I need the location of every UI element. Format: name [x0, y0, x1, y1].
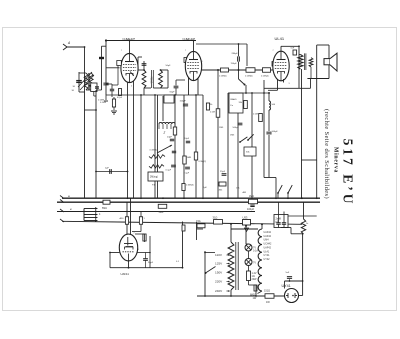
svg-text:UY41: UY41	[264, 254, 271, 257]
svg-text:0.1M5: 0.1M5	[98, 100, 105, 102]
svg-text:0.5M(3): 0.5M(3)	[186, 185, 194, 187]
svg-text:Minerva: Minerva	[333, 147, 339, 173]
svg-text:50µF: 50µF	[148, 262, 154, 264]
svg-text:5MΩ: 5MΩ	[102, 208, 107, 210]
svg-text:0.5M(2): 0.5M(2)	[199, 161, 207, 163]
svg-text:7060/1: 7060/1	[150, 76, 152, 84]
svg-text:(rechte Seite des Schaltbildes: (rechte Seite des Schaltbildes)	[323, 109, 330, 199]
svg-text:220V: 220V	[215, 280, 223, 284]
svg-text:0.1M(1): 0.1M(1)	[150, 150, 158, 152]
svg-text:7: 7	[185, 50, 186, 52]
svg-text:3: 3	[138, 249, 139, 251]
svg-text:240V: 240V	[215, 289, 223, 293]
svg-text:UL41: UL41	[264, 250, 270, 253]
svg-text:100pF: 100pF	[272, 131, 279, 133]
svg-text:50pF: 50pF	[170, 92, 176, 94]
svg-text:AM: AM	[243, 191, 246, 194]
svg-text:0.1M(5): 0.1M(5)	[219, 76, 227, 78]
svg-text:UCH42: UCH42	[264, 243, 273, 246]
svg-text:24pF: 24pF	[167, 137, 173, 139]
svg-text:5MΩ: 5MΩ	[159, 212, 164, 214]
svg-text:151Ω: 151Ω	[264, 290, 270, 293]
svg-text:125V: 125V	[215, 262, 223, 266]
svg-text:0.1M5: 0.1M5	[100, 102, 107, 104]
svg-text:700pF: 700pF	[231, 63, 238, 65]
svg-text:6: 6	[138, 62, 139, 64]
svg-text:A: A	[67, 41, 70, 45]
svg-text:3: 3	[289, 83, 290, 85]
svg-text:100pF: 100pF	[180, 101, 187, 103]
svg-text:0.1M(4): 0.1M(4)	[261, 76, 269, 78]
svg-text:31Ω: 31Ω	[213, 216, 218, 220]
svg-text:1W: 1W	[266, 301, 270, 304]
svg-text:1W: 1W	[253, 297, 257, 300]
svg-text:0µF: 0µF	[203, 187, 207, 189]
svg-text:20W: 20W	[252, 278, 258, 281]
svg-text:UL41: UL41	[275, 36, 285, 41]
svg-text:0.1µF: 0.1µF	[184, 173, 190, 175]
svg-text:25µF: 25µF	[220, 171, 226, 173]
svg-text:110V: 110V	[215, 253, 223, 257]
svg-text:500pF: 500pF	[233, 127, 240, 129]
svg-text:UAF42: UAF42	[264, 246, 272, 249]
svg-text:0.1µF: 0.1µF	[166, 170, 172, 172]
svg-text:UAF42: UAF42	[264, 235, 272, 238]
svg-text:7V: 7V	[253, 262, 256, 265]
svg-text:5nF: 5nF	[291, 48, 295, 50]
svg-text:Z: Z	[163, 131, 166, 135]
svg-text:7: 7	[121, 50, 122, 52]
svg-text:RAHD: RAHD	[231, 98, 238, 101]
svg-text:2M(ℓog): 2M(ℓog)	[150, 176, 158, 179]
svg-text:150V: 150V	[215, 271, 223, 275]
svg-text:5nF: 5nF	[286, 272, 290, 274]
svg-text:UAF42: UAF42	[264, 231, 272, 234]
svg-text:UM4: UM4	[264, 239, 270, 242]
svg-text:100µF: 100µF	[247, 208, 255, 211]
svg-text:Dr: Dr	[306, 222, 309, 225]
svg-text:24µF: 24µF	[184, 138, 190, 140]
svg-text:47µF: 47µF	[117, 97, 123, 99]
svg-text:0.1M: 0.1M	[210, 112, 215, 114]
svg-text:0.1M(6): 0.1M(6)	[245, 76, 253, 78]
svg-text:2: 2	[134, 233, 135, 235]
svg-text:2: 2	[131, 86, 132, 88]
svg-text:UAF41: UAF41	[121, 272, 130, 276]
svg-text:517 E’U: 517 E’U	[341, 139, 356, 207]
svg-text:U53: U53	[243, 216, 248, 220]
svg-text:7: 7	[273, 50, 274, 52]
svg-text:280pF: 280pF	[232, 53, 239, 55]
svg-text:1MΩ: 1MΩ	[187, 157, 192, 159]
svg-text:6: 6	[202, 61, 203, 63]
svg-text:UY42: UY42	[264, 258, 271, 261]
svg-text:UY41: UY41	[282, 284, 291, 288]
svg-text:0µF: 0µF	[105, 168, 109, 170]
svg-text:0.1M: 0.1M	[253, 114, 258, 116]
svg-text:50pF: 50pF	[166, 65, 172, 67]
svg-text:0.1A: 0.1A	[253, 250, 258, 253]
